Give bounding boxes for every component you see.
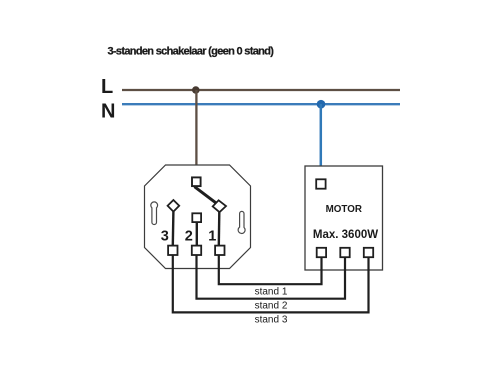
switch mounting plate (octagon) (145, 165, 251, 269)
svg-text:3: 3 (161, 229, 169, 245)
motor supply terminal (316, 179, 325, 188)
motor box (305, 166, 383, 270)
svg-text:stand 1: stand 1 (255, 287, 288, 298)
svg-text:3-standen schakelaar (geen 0 s: 3-standen schakelaar (geen 0 stand) (108, 45, 275, 57)
svg-text:Max. 3600W: Max. 3600W (313, 229, 378, 241)
junction on L (192, 86, 200, 94)
svg-text:2: 2 (185, 229, 193, 245)
switch lever (to position 1) (195, 187, 216, 203)
svg-text:stand 2: stand 2 (255, 301, 288, 312)
wire N neutral line (blue) (122, 103, 400, 105)
wire stand 3 (switch terminal 3 to motor terminal 3) (173, 256, 369, 313)
motor terminal 1 (317, 248, 326, 257)
wire contact 2 to terminal 2 (196, 223, 198, 245)
wire contact 1 to terminal 1 (218, 212, 221, 245)
svg-text:L: L (101, 76, 113, 98)
motor terminal 3 (364, 248, 373, 257)
motor terminal 2 (340, 248, 349, 257)
svg-text:MOTOR: MOTOR (326, 204, 362, 215)
svg-text:stand 3: stand 3 (255, 314, 288, 325)
svg-text:1: 1 (208, 229, 216, 245)
wire stand 2 (switch terminal 2 to motor terminal 2) (197, 256, 346, 299)
junction on N (317, 100, 326, 109)
switch terminal 2 (192, 246, 201, 255)
wire contact 3 to terminal 3 (172, 212, 175, 246)
wire N to motor terminal (blue) (320, 104, 323, 179)
switch terminal 3 (168, 246, 177, 255)
wire L phase line (brown) (122, 89, 400, 91)
mounting hole left (keyhole) (151, 202, 158, 225)
contact 3 (diamond) (168, 200, 180, 212)
switch terminal 1 (215, 246, 224, 255)
contact 2 (square) (192, 213, 201, 222)
contact 1 (diamond) (213, 200, 226, 212)
wire L to switch common (brown) (195, 90, 197, 177)
wire stand 1 (switch terminal 1 to motor terminal 1) (219, 256, 322, 285)
mounting hole right (keyhole) (238, 211, 245, 233)
switch common terminal (192, 177, 201, 186)
svg-text:N: N (101, 101, 115, 123)
